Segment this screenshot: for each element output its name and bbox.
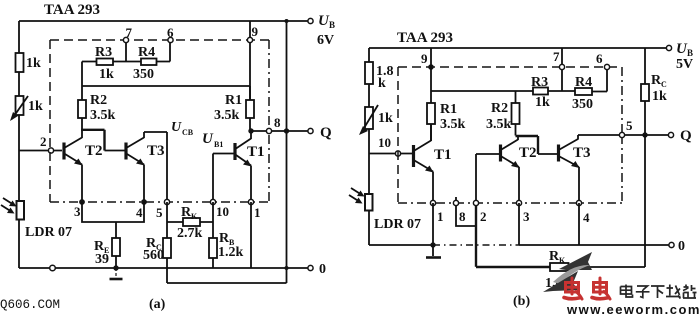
wire pin1 ground b: [426, 203, 441, 258]
wire internal rail b: [431, 48, 607, 92]
pin 6 b: [596, 51, 610, 70]
svg-text:10: 10: [378, 135, 391, 150]
svg-text:B1: B1: [214, 140, 223, 149]
pin 2 a: [40, 134, 54, 153]
svg-text:2: 2: [480, 209, 487, 224]
svg-text:T3: T3: [573, 145, 591, 161]
terminal Q b: [668, 128, 692, 144]
svg-text:R3: R3: [95, 45, 112, 60]
svg-text:9: 9: [252, 24, 259, 39]
label Q606.COM: [0, 298, 60, 312]
svg-text:7: 7: [126, 25, 133, 40]
svg-text:1k: 1k: [26, 56, 41, 71]
svg-text:T3: T3: [147, 143, 165, 159]
variable resistor 1k b: [359, 105, 393, 135]
resistor R4 b: [572, 75, 593, 112]
pin 4 b: [576, 200, 590, 225]
label TAA 293 (a): [44, 2, 100, 18]
wire base T2 / pin2 a: [19, 150, 62, 152]
svg-text:4: 4: [583, 210, 590, 225]
svg-text:Q: Q: [320, 125, 332, 141]
svg-text:7: 7: [553, 49, 560, 64]
label UCB a: [171, 120, 194, 137]
resistor R2 b: [486, 91, 520, 136]
svg-text:3: 3: [74, 204, 81, 219]
resistor RK b: [476, 249, 645, 291]
svg-text:3.5k: 3.5k: [440, 117, 466, 132]
wire pin2 vertical b: [475, 154, 477, 267]
svg-text:2: 2: [40, 134, 47, 149]
label UB1 a: [202, 131, 223, 149]
pin 4 a: [136, 199, 147, 220]
pin 5 a: [156, 199, 170, 220]
pin 9 b: [421, 51, 434, 70]
terminal UB a: [308, 13, 335, 48]
svg-text:B: B: [329, 20, 335, 30]
svg-text:T2: T2: [85, 143, 103, 159]
svg-text:T1: T1: [434, 147, 452, 163]
resistor 1k top-left a: [16, 53, 42, 72]
resistor RB a: [209, 202, 244, 268]
svg-text:1k: 1k: [99, 67, 114, 82]
wire pin10 base wire b: [369, 153, 412, 155]
svg-text:6: 6: [596, 51, 603, 66]
svg-text:www.eeworm.com: www.eeworm.com: [566, 302, 700, 316]
watermark url: [566, 302, 700, 316]
svg-text:6: 6: [167, 25, 174, 40]
resistor R4 a: [126, 43, 170, 82]
wire Q line a: [248, 128, 308, 133]
svg-text:0: 0: [319, 262, 326, 277]
transistor T3 b: [538, 135, 591, 203]
resistor RK a: [167, 205, 213, 241]
label TAA 293 (b): [397, 30, 453, 46]
svg-text:2.7k: 2.7k: [177, 226, 203, 241]
svg-text:LDR 07: LDR 07: [25, 225, 72, 240]
terminal Q a: [308, 125, 332, 141]
ground a: [110, 268, 123, 279]
pin 3 a: [74, 199, 85, 219]
wire bottom loop a: [167, 282, 287, 284]
svg-text:U: U: [202, 131, 214, 147]
wire loop 8-2 b: [456, 206, 476, 226]
resistor R3 b: [531, 75, 550, 110]
resistor R1 a: [214, 86, 254, 131]
pin 6 a: [167, 25, 174, 43]
svg-text:1k: 1k: [535, 95, 550, 110]
wire 0 rail b: [369, 244, 670, 246]
wire right vertical b: [644, 135, 646, 267]
svg-text:k: k: [378, 76, 386, 91]
watermark text dianzi: [621, 285, 697, 299]
svg-text:10: 10: [216, 204, 229, 219]
pin 8 b: [453, 197, 466, 224]
svg-text:1k: 1k: [28, 99, 43, 114]
pin 3 b: [516, 200, 530, 224]
svg-text:1k: 1k: [652, 89, 667, 104]
svg-text:5: 5: [626, 118, 633, 133]
watermark chong1: [564, 278, 582, 299]
pin 2 b: [473, 200, 486, 224]
svg-text:0: 0: [678, 239, 685, 254]
variable resistor 1k a: [10, 96, 43, 121]
pin 7 a: [123, 25, 132, 43]
wire left vertical a: [18, 21, 20, 268]
svg-text:5: 5: [156, 205, 163, 220]
wire top rail b: [369, 47, 667, 49]
svg-text:R4: R4: [575, 75, 592, 90]
terminal 0 a: [308, 262, 326, 277]
watermark chong2: [592, 278, 610, 299]
transistor T2 b: [476, 136, 538, 203]
LDR 07 b: [349, 188, 421, 232]
svg-text:K: K: [191, 212, 198, 221]
pin 8 a: [266, 115, 281, 134]
svg-text:R2: R2: [491, 101, 508, 116]
transistor T2 a: [64, 129, 105, 202]
svg-text:R1: R1: [225, 93, 242, 108]
wire internal rail a: [82, 85, 250, 87]
svg-text:8: 8: [459, 209, 466, 224]
LDR 07 a: [1, 198, 72, 240]
pin 10 a: [210, 199, 229, 219]
pin 1 a: [248, 199, 260, 220]
resistor RC a: [143, 236, 171, 283]
svg-text:R4: R4: [138, 45, 155, 60]
svg-text:T1: T1: [247, 144, 265, 160]
svg-text:560: 560: [143, 248, 164, 263]
caption (a): [149, 297, 166, 312]
svg-text:3: 3: [523, 209, 530, 224]
svg-text:T2: T2: [519, 145, 537, 161]
svg-text:Q: Q: [680, 128, 692, 144]
svg-text:4: 4: [136, 205, 143, 220]
svg-text:Q606.COM: Q606.COM: [0, 298, 60, 312]
wire pin5 branch a: [166, 202, 168, 238]
terminal 0 b: [669, 239, 685, 254]
svg-text:350: 350: [572, 97, 593, 112]
svg-text:3.5k: 3.5k: [486, 117, 512, 132]
wire Q line b: [578, 132, 669, 137]
transistor T1 b: [414, 124, 452, 203]
wire emitter loop 3-4 a: [82, 202, 144, 238]
svg-text:1: 1: [254, 205, 261, 220]
wire pin9 vertical b: [430, 48, 432, 103]
resistor RE a: [94, 238, 120, 271]
resistor R1 b: [427, 102, 466, 141]
resistor R3 a: [95, 45, 114, 82]
svg-text:(b): (b): [513, 294, 530, 309]
wire R3 branch a: [82, 43, 126, 86]
svg-text:LDR 07: LDR 07: [374, 217, 421, 232]
node circle on 0 rail a: [50, 265, 56, 271]
svg-text:1: 1: [437, 209, 444, 224]
pin 7 b: [553, 49, 565, 70]
svg-text:CB: CB: [182, 128, 194, 137]
IC dashed box a: [50, 40, 269, 202]
svg-text:9: 9: [421, 51, 428, 66]
caption (b): [513, 294, 530, 309]
watermark arrow gray: [553, 265, 590, 284]
svg-text:R1: R1: [440, 102, 457, 117]
terminal UB b: [666, 41, 693, 72]
resistor 1.8k b: [365, 62, 394, 91]
svg-text:5V: 5V: [676, 57, 693, 72]
resistor RC b: [641, 48, 667, 135]
svg-text:3.5k: 3.5k: [90, 108, 116, 123]
pin 1 b: [430, 200, 443, 224]
wire pin3 vertical b: [518, 203, 520, 245]
svg-text:R3: R3: [531, 75, 548, 90]
wire right vertical a: [284, 19, 289, 283]
svg-text:6V: 6V: [317, 33, 334, 48]
pin 9 a: [247, 24, 258, 43]
resistor R2 a: [78, 86, 116, 129]
pin 10 b: [378, 135, 401, 156]
wire pin4 vertical b: [578, 203, 580, 245]
svg-text:(a): (a): [149, 297, 166, 312]
svg-text:TAA 293: TAA 293: [44, 2, 100, 18]
svg-text:U: U: [171, 120, 182, 135]
watermark arrow dark1: [559, 252, 592, 270]
svg-text:8: 8: [274, 115, 281, 130]
transistor T3 a: [105, 132, 168, 202]
svg-text:1k: 1k: [378, 111, 393, 126]
watermark arrow dark2: [543, 271, 578, 292]
svg-text:TAA 293: TAA 293: [397, 30, 453, 46]
svg-text:R2: R2: [90, 93, 107, 108]
svg-text:1.2k: 1.2k: [218, 245, 244, 260]
wire 0 rail a: [19, 267, 309, 269]
svg-text:3.5k: 3.5k: [214, 108, 240, 123]
wire pin1 vertical a: [250, 202, 252, 268]
wire pin9 vertical a: [249, 21, 251, 100]
transistor T1 a: [213, 131, 265, 202]
wire left vertical b: [368, 48, 370, 245]
svg-text:39: 39: [95, 252, 109, 267]
IC dashed box b: [398, 67, 622, 203]
pin 5 b: [619, 118, 633, 138]
svg-text:C: C: [661, 80, 667, 89]
svg-text:K: K: [559, 256, 566, 265]
svg-text:350: 350: [133, 67, 154, 82]
wire top rail a: [19, 20, 309, 22]
